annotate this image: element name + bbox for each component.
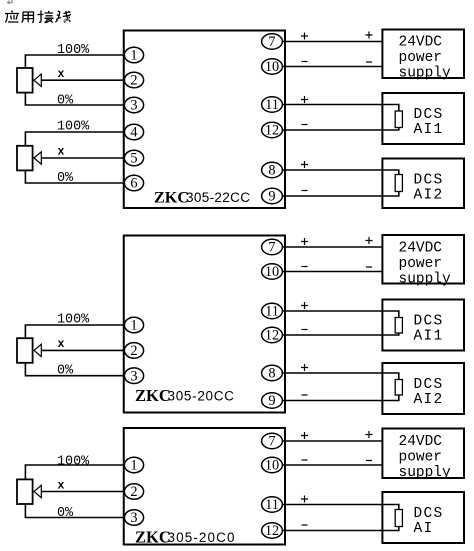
- svg-text:8: 8: [268, 366, 275, 382]
- svg-text:10: 10: [265, 264, 279, 280]
- svg-text:power: power: [399, 256, 443, 272]
- minus sign near pin12 (bot): [302, 524, 308, 526]
- svg-text:DCS: DCS: [414, 377, 444, 393]
- svg-text:x: x: [58, 480, 65, 493]
- pin 10 (U2): [262, 264, 283, 280]
- 24VDC power supply box (top): [382, 30, 464, 79]
- pin 9 (U2): [262, 393, 283, 409]
- svg-text:AI1: AI1: [414, 122, 444, 138]
- module box U1 ZKC305-22CC: [124, 31, 285, 209]
- svg-text:2: 2: [130, 484, 137, 500]
- pin 7 (U3): [262, 433, 283, 449]
- label DCS AI (bot): [414, 506, 444, 537]
- pin 7 (U1): [262, 34, 283, 50]
- pin 2 (U2): [124, 343, 143, 360]
- wire RP4 100% to pin1: [25, 465, 124, 480]
- pin 4 (U1): [124, 124, 143, 141]
- resistor in DCS AI (bot): [395, 510, 402, 527]
- plus sign near pin8: [301, 161, 308, 168]
- potentiometer RP2 (lower): [17, 146, 33, 171]
- label ZKC305-22CC: [154, 188, 250, 206]
- wire pin9 to DCS AI2 resistor (mid): [282, 395, 399, 401]
- label DCS AI2 (top): [414, 173, 444, 204]
- wiper arrow RP2: [34, 152, 41, 164]
- pin 6 (U1): [124, 175, 143, 192]
- potentiometer RP4: [17, 479, 33, 504]
- plus sign near power box (mid): [366, 237, 373, 244]
- svg-text:power: power: [399, 450, 443, 466]
- wire pin9 to DCS AI2 resistor: [282, 192, 399, 197]
- plus sign near pin11: [301, 96, 308, 103]
- label 24VDC power supply (mid): [399, 241, 452, 288]
- title 应用接线 (hand-drawn strokes): [5, 11, 71, 23]
- minus sign near pin9 (mid): [302, 394, 308, 396]
- minus sign near pin12: [302, 124, 308, 126]
- pin 12 (U3): [262, 523, 283, 539]
- DCS AI2 box (mid): [382, 363, 464, 414]
- svg-text:supply: supply: [399, 66, 452, 82]
- svg-text:11: 11: [265, 497, 279, 513]
- wire pin10 to 24VDC - (bot): [282, 464, 382, 466]
- svg-text:305-20CC: 305-20CC: [168, 389, 235, 404]
- char 接: [38, 11, 54, 23]
- svg-text:4: 4: [130, 125, 137, 141]
- svg-text:1: 1: [130, 458, 137, 474]
- wire RP1 wiper to pin2: [41, 79, 124, 81]
- svg-text:1: 1: [130, 318, 137, 334]
- minus sign near power box (bot): [366, 460, 372, 462]
- svg-text:x: x: [58, 338, 65, 351]
- DCS AI1 box (top): [382, 93, 464, 144]
- label DCS AI2 (mid): [414, 377, 444, 408]
- pin 10 (U3): [262, 457, 283, 473]
- label ZKC305-20C0: [135, 528, 236, 547]
- wire RP4 0% to pin3: [25, 504, 124, 518]
- svg-text:100%: 100%: [57, 454, 90, 469]
- svg-text:9: 9: [268, 393, 275, 409]
- pin 8 (U2): [262, 365, 283, 381]
- plus sign near pin7 (mid): [301, 238, 308, 245]
- svg-text:12: 12: [265, 328, 279, 344]
- resistor in DCS AI2 (top): [395, 175, 402, 192]
- wire RP3 100% to pin1: [25, 325, 124, 339]
- svg-text:11: 11: [265, 304, 279, 320]
- wire pin11 to DCS AI resistor (bot): [282, 505, 399, 510]
- plus sign near pin7 (bot): [301, 432, 308, 439]
- DCS AI2 box (top): [382, 159, 464, 209]
- svg-text:12: 12: [265, 123, 279, 139]
- svg-text:305-20C0: 305-20C0: [168, 530, 236, 545]
- svg-text:0%: 0%: [57, 363, 74, 378]
- label 24VDC power supply (bot): [399, 434, 452, 481]
- svg-text:ZKC: ZKC: [154, 188, 189, 206]
- label DCS AI1 (mid): [414, 314, 444, 345]
- 24VDC power supply box (mid): [382, 235, 464, 284]
- wire pin7 to 24VDC + (mid): [282, 246, 382, 248]
- resistor in DCS AI1 (top): [395, 111, 402, 128]
- resistor in DCS AI2 (mid): [395, 380, 402, 396]
- svg-text:24VDC: 24VDC: [399, 241, 443, 257]
- plus sign near pin8 (mid): [301, 364, 308, 371]
- pin 3 (U3): [124, 510, 143, 527]
- pin 2 (U1): [124, 72, 143, 89]
- wire pin11 to DCS AI1 resistor (mid): [282, 311, 399, 318]
- svg-text:2: 2: [130, 343, 137, 359]
- module box U3 ZKC305-20C0: [124, 428, 285, 545]
- svg-text:9: 9: [268, 189, 275, 205]
- plus sign near power box (bot): [366, 431, 373, 438]
- svg-text:100%: 100%: [57, 120, 90, 135]
- pin 12 (U2): [262, 327, 283, 343]
- wire pin12 to DCS AI resistor (bot): [282, 527, 399, 531]
- 24VDC power supply box (bot): [382, 429, 464, 479]
- svg-text:AI: AI: [414, 521, 434, 537]
- wiper arrow RP3: [34, 344, 41, 356]
- wire pin10 to 24VDC -: [282, 66, 382, 68]
- svg-text:12: 12: [265, 523, 279, 539]
- wire pin10 to 24VDC - (mid): [282, 271, 382, 273]
- pin 8 (U1): [262, 162, 283, 178]
- svg-text:10: 10: [265, 59, 279, 75]
- svg-text:ZKC: ZKC: [135, 386, 171, 405]
- wire RP2 100% to pin4: [25, 132, 124, 146]
- resistor in DCS AI1 (mid): [395, 318, 402, 334]
- char 用: [22, 12, 34, 23]
- svg-text:6: 6: [130, 176, 137, 192]
- svg-text:11: 11: [265, 97, 279, 113]
- paragraph return mark (gray, after title): [64, 16, 69, 23]
- pin 11 (U2): [262, 303, 283, 319]
- svg-text:100%: 100%: [57, 43, 90, 58]
- svg-text:ZKC: ZKC: [135, 528, 171, 547]
- svg-text:24VDC: 24VDC: [399, 35, 443, 51]
- svg-text:AI2: AI2: [414, 188, 444, 204]
- plus sign near pin11 (mid): [301, 302, 308, 309]
- pin 3 (U1): [124, 97, 143, 114]
- char 应: [5, 11, 19, 23]
- pin 11 (U3): [262, 497, 283, 513]
- pin 11 (U1): [262, 97, 283, 113]
- svg-text:2: 2: [130, 73, 137, 89]
- svg-text:DCS: DCS: [414, 506, 444, 522]
- svg-text:supply: supply: [399, 272, 452, 288]
- label DCS AI1 (top): [414, 107, 444, 138]
- minus sign near power box (top): [366, 61, 372, 63]
- wire pin12 to DCS AI1 resistor: [282, 128, 399, 131]
- wire pin8 to DCS AI2 resistor: [282, 170, 399, 175]
- wire pin7 to 24VDC +: [282, 41, 382, 43]
- svg-text:1: 1: [130, 48, 137, 64]
- svg-text:DCS: DCS: [414, 173, 444, 189]
- wire RP3 0% to pin3: [25, 363, 124, 376]
- pin 5 (U1): [124, 150, 143, 167]
- wire RP1 0% to pin3: [25, 93, 124, 106]
- wire RP2 wiper to pin5: [41, 157, 124, 159]
- svg-text:0%: 0%: [57, 93, 74, 108]
- wiper arrow RP4: [34, 485, 41, 497]
- svg-text:x: x: [58, 146, 65, 159]
- plus sign near pin11 (bot): [301, 496, 308, 503]
- pin 10 (U1): [262, 59, 283, 75]
- svg-text:0%: 0%: [57, 171, 74, 186]
- pin 1 (U3): [124, 457, 143, 474]
- wire pin7 to 24VDC + (bot): [282, 440, 382, 442]
- wire pin11 to DCS AI1 resistor: [282, 105, 399, 112]
- minus sign near pin10: [302, 61, 308, 63]
- label ZKC305-20CC: [135, 386, 235, 405]
- char 线: [56, 11, 71, 23]
- potentiometer RP3: [17, 338, 33, 363]
- svg-text:DCS: DCS: [414, 314, 444, 330]
- svg-text:7: 7: [268, 434, 275, 450]
- pin 1 (U2): [124, 317, 143, 334]
- pin 7 (U2): [262, 239, 283, 255]
- minus sign near power box (mid): [366, 266, 372, 268]
- svg-text:0%: 0%: [57, 506, 74, 521]
- pin 9 (U1): [262, 188, 283, 204]
- svg-text:power: power: [399, 50, 443, 66]
- wiper arrow RP1: [34, 74, 41, 86]
- wire pin12 to DCS AI1 resistor (mid): [282, 333, 399, 335]
- svg-text:10: 10: [265, 458, 279, 474]
- svg-text:5: 5: [130, 151, 137, 167]
- svg-text:305-22CC: 305-22CC: [186, 190, 250, 205]
- pin 2 (U3): [124, 484, 143, 501]
- wire RP3 wiper to pin2: [41, 349, 124, 351]
- svg-text:3: 3: [130, 98, 137, 114]
- label 24VDC power supply (top): [399, 35, 452, 82]
- svg-text:supply: supply: [399, 465, 452, 481]
- DCS AI box (bot): [382, 492, 464, 543]
- module box U2 ZKC305-20CC: [124, 236, 285, 413]
- plus sign near power box (top): [366, 32, 373, 39]
- minus sign near pin9: [302, 190, 308, 192]
- svg-text:AI1: AI1: [414, 329, 444, 345]
- minus sign near pin10 (bot): [302, 459, 308, 461]
- minus sign near pin12 (mid): [302, 329, 308, 331]
- DCS AI1 box (mid): [382, 300, 464, 351]
- svg-text:DCS: DCS: [414, 107, 444, 123]
- pin 12 (U1): [262, 122, 283, 138]
- svg-text:7: 7: [268, 34, 275, 50]
- svg-text:AI2: AI2: [414, 392, 444, 408]
- svg-text:3: 3: [130, 510, 137, 526]
- minus sign near pin10 (mid): [302, 266, 308, 268]
- svg-text:100%: 100%: [57, 312, 90, 327]
- svg-text:3: 3: [130, 368, 137, 384]
- plus sign near pin7: [301, 33, 308, 40]
- svg-text:x: x: [58, 68, 65, 81]
- wire RP1 100% to pin1: [25, 55, 124, 68]
- pin 1 (U1): [124, 47, 143, 64]
- wire pin8 to DCS AI2 resistor (mid): [282, 373, 399, 380]
- wire RP4 wiper to pin2: [41, 491, 124, 493]
- svg-text:8: 8: [268, 163, 275, 179]
- svg-text:7: 7: [268, 240, 275, 256]
- paragraph return mark (gray, top-left, clipped): [8, 0, 13, 4]
- potentiometer RP1 (upper): [17, 68, 33, 93]
- pin 3 (U2): [124, 368, 143, 384]
- svg-text:24VDC: 24VDC: [399, 434, 443, 450]
- wire RP2 0% to pin6: [25, 170, 124, 183]
